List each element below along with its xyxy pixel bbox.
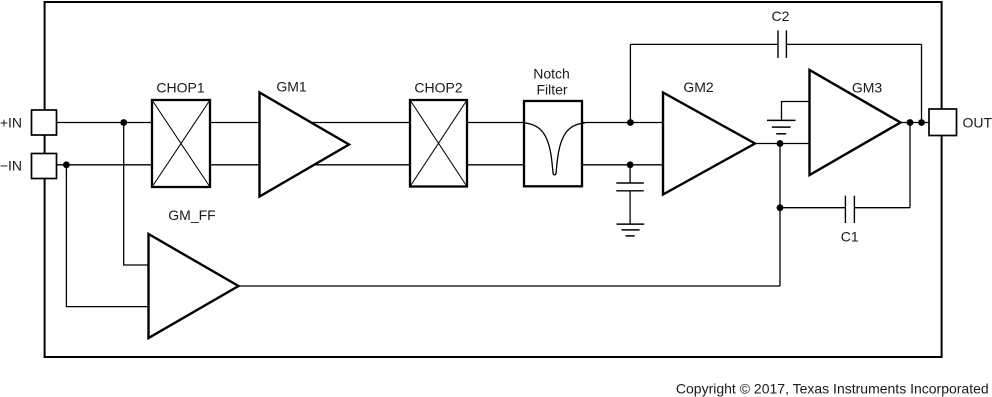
- wire GM2 output to GM3 input: [754, 143, 810, 145]
- wire GM_FF upper input from +IN node: [124, 123, 149, 266]
- node junction rail A / C2: [627, 119, 634, 126]
- node junction output / C2: [918, 119, 925, 126]
- wire +IN rail to GM2 input (net A, y=122.5): [50, 122, 663, 124]
- svg-text:CHOP1: CHOP1: [156, 80, 204, 96]
- chopper CHOP2: [410, 100, 467, 187]
- wire C1 right horizontal: [854, 207, 910, 209]
- wire GM3 output to OUT pin: [900, 122, 935, 124]
- wire -IN rail to GM2 lower input (net B, y=164.8): [50, 164, 663, 166]
- svg-text:GM_FF: GM_FF: [168, 207, 215, 223]
- wire GM3 upper input to ground: [782, 102, 811, 121]
- wire GM_FF lower input from -IN node: [66, 165, 149, 307]
- svg-text:CHOP2: CHOP2: [414, 80, 462, 96]
- capacitor at GM2 lower input: [616, 183, 644, 191]
- svg-text:C1: C1: [841, 229, 859, 245]
- amplifier GM_FF (feedforward): [149, 234, 239, 338]
- wire C2 top right horizontal: [786, 43, 921, 45]
- svg-text:GM2: GM2: [683, 79, 714, 95]
- ground at GM3 upper input: [767, 120, 796, 133]
- pin +IN: [32, 110, 57, 135]
- node junction rail B / input capacitor: [627, 161, 634, 168]
- chopper CHOP1: [152, 100, 210, 187]
- node junction output / C1: [907, 119, 914, 126]
- wire GM2 lower-input node to capacitor: [629, 165, 631, 183]
- wire capacitor to ground stem: [629, 191, 631, 224]
- node junction C1 left: [777, 204, 784, 211]
- amplifier GM3: [810, 70, 901, 175]
- wire C1 right vertical to output node: [909, 123, 911, 208]
- svg-text:Filter: Filter: [536, 82, 567, 98]
- svg-text:−IN: −IN: [0, 158, 22, 174]
- svg-text:Copyright © 2017, Texas Instru: Copyright © 2017, Texas Instruments Inco…: [676, 381, 989, 397]
- pin -IN: [32, 154, 57, 179]
- wire C2 left vertical: [629, 44, 631, 122]
- svg-text:Notch: Notch: [533, 65, 570, 81]
- wire C1 left horizontal: [780, 207, 845, 209]
- svg-text:OUT: OUT: [963, 115, 992, 131]
- node junction -IN / GM_FF: [63, 161, 70, 168]
- node junction +IN / GM_FF: [120, 119, 127, 126]
- amplifier GM2: [663, 93, 755, 195]
- node junction GM2 output / C1 branch: [777, 140, 784, 147]
- notch filter block: [524, 101, 585, 186]
- amplifier GM1: [260, 93, 350, 197]
- pin OUT: [929, 109, 957, 136]
- svg-text:C2: C2: [772, 8, 790, 24]
- wire GM_FF output feedforward line: [238, 285, 780, 287]
- wire C2 right vertical: [921, 44, 923, 122]
- svg-text:+IN: +IN: [0, 115, 22, 131]
- svg-text:GM3: GM3: [852, 79, 883, 95]
- svg-text:GM1: GM1: [276, 79, 307, 95]
- capacitor C2: [778, 30, 786, 58]
- wire GM2-output node down to feedforward line: [779, 144, 781, 287]
- wire C2 top left horizontal: [630, 43, 778, 45]
- capacitor C1: [845, 196, 854, 223]
- ground below input capacitor: [617, 224, 645, 236]
